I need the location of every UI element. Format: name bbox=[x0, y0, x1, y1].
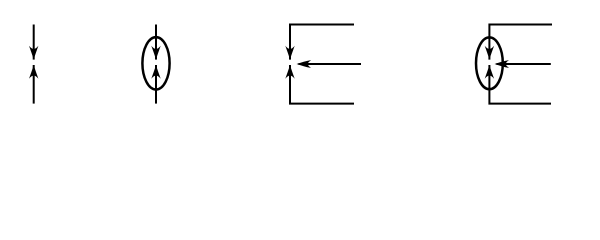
arrowhead: figure (c) leftward current arrow into node bbox=[297, 60, 312, 68]
wire: figure (c) middle branch, current flowing left into node bbox=[299, 63, 362, 65]
wire: figure (c) bottom branch into node bbox=[290, 65, 354, 104]
arrowhead: figure (c) upward current arrow into node bbox=[285, 65, 294, 79]
wire: figure (c) top branch into node bbox=[290, 25, 354, 60]
wire: figure (d) middle branch, current flowing left into element bbox=[497, 63, 551, 65]
wire: figure (a) upper lead, current flowing down bbox=[33, 25, 35, 60]
wire: figure (d) top branch bbox=[489, 25, 552, 60]
element: figure (d) two-terminal element (ellipse) bbox=[476, 37, 503, 89]
wire: figure (b) lower lead, current flowing up bbox=[155, 65, 157, 104]
arrowhead: figure (d) downward current arrow inside element bbox=[485, 46, 494, 60]
arrowhead: figure (a) upward current arrow bbox=[29, 65, 38, 79]
wire: figure (b) upper lead, current flowing down bbox=[155, 25, 157, 60]
arrowhead: figure (a) downward current arrow bbox=[29, 46, 38, 60]
arrowhead: figure (d) upward current arrow inside element bbox=[485, 65, 494, 79]
arrowhead: figure (b) downward current arrow bbox=[151, 46, 160, 60]
wire: figure (a) lower lead, current flowing up bbox=[33, 65, 35, 104]
wire: figure (d) bottom branch bbox=[489, 65, 551, 104]
element: figure (b) two-terminal element (ellipse) bbox=[142, 37, 169, 89]
arrowhead: figure (b) upward current arrow bbox=[151, 65, 160, 79]
arrowhead: figure (d) leftward current arrow into element bbox=[495, 60, 510, 68]
arrowhead: figure (c) downward current arrow into node bbox=[285, 46, 294, 60]
